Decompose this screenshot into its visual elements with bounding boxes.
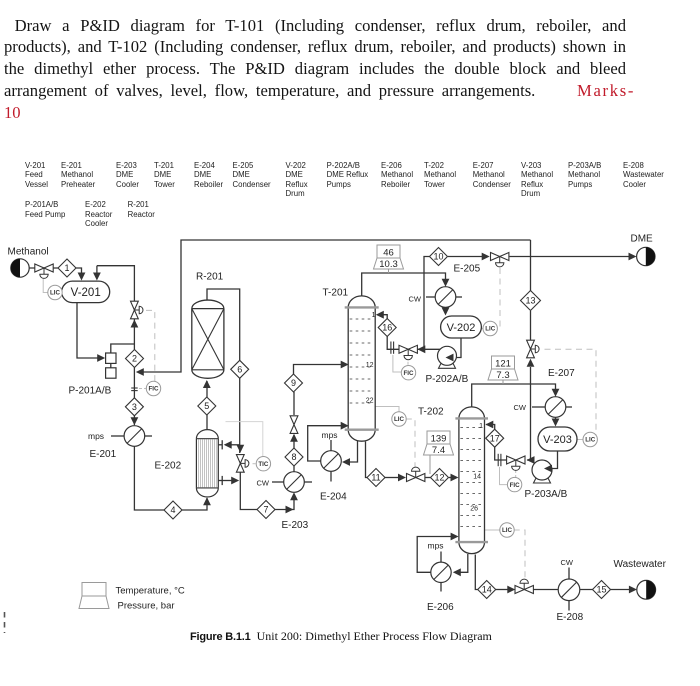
wire methanol feed into V-201 (29, 267, 58, 269)
svg-text:13: 13 (525, 296, 535, 306)
wire P-203A/B reflux line to stream 17 (527, 459, 531, 461)
stream flag 12 (431, 469, 449, 487)
svg-text:CW: CW (409, 295, 422, 304)
arrow into E-202 bottom (203, 497, 211, 505)
arrow into P-203A/B (544, 465, 552, 473)
arrow into wastewater product (629, 586, 637, 594)
wire E-203 to stream 8 valve stream 9 (293, 466, 295, 472)
svg-text:CW: CW (514, 403, 527, 412)
valve T-202 feed control (407, 474, 416, 482)
svg-text:LIC: LIC (585, 437, 595, 444)
wire effluent branch into E-202 shell (225, 444, 240, 446)
wire methanol recycle main header (138, 240, 531, 372)
arrow into DME product (629, 253, 637, 261)
signal V-202 LIC to DME valve (497, 268, 500, 329)
exchanger E-203 DME cooler (284, 472, 305, 493)
svg-text:Wastewater: Wastewater (614, 559, 667, 570)
stream flag 17 (486, 429, 504, 447)
svg-text:T-202: T-202 (418, 407, 444, 418)
wire stream 11 valve stream 12 to T-202 feed (385, 477, 401, 479)
instrument LIC on T-202 (500, 523, 514, 537)
arrow after stream 11 (398, 474, 406, 482)
stream flag 1 (58, 259, 76, 277)
wire stream 9 to T-201 feed (294, 365, 343, 375)
svg-text:E-204: E-204 (320, 492, 347, 503)
svg-text:CW: CW (257, 478, 270, 487)
arrow recycle joins feed (136, 368, 144, 376)
svg-text:E-202: E-202 (155, 461, 182, 472)
flange ticks stream 16 line (390, 342, 392, 354)
valve methanol feed control (35, 264, 44, 272)
svg-text:TIC: TIC (258, 461, 268, 468)
instrument TIC at E-202 (256, 457, 270, 471)
arrow into P-202A/B (446, 354, 454, 362)
arrow T-202 reflux in (485, 421, 493, 429)
wire E-204 boilup return to T-201 (308, 426, 343, 461)
stream flag 4 (164, 501, 182, 519)
svg-text:Pressure, bar: Pressure, bar (118, 601, 175, 612)
wire E-204 mps stub (330, 440, 332, 451)
arrow into V-203 (552, 419, 560, 427)
arrow into DME valve (482, 253, 490, 261)
instrument LIC on T-201 (392, 412, 406, 426)
arrow into E-203 (290, 492, 298, 500)
instrument FIC on T-202 reflux (507, 477, 521, 491)
svg-text:T-201: T-201 (323, 288, 349, 299)
exchanger E-207 methanol condenser (545, 397, 566, 418)
arrow into R-201 bottom (203, 380, 211, 388)
svg-text:FIC: FIC (510, 482, 520, 489)
arrow into E-204 (342, 458, 350, 466)
exchanger E-204 DME reboiler (321, 451, 342, 472)
wire methanol recycle riser from pump (530, 367, 532, 460)
stream flag 5 (198, 397, 216, 415)
valve T-201 reflux control (399, 345, 408, 353)
svg-text:17: 17 (490, 433, 500, 443)
arrow into E-202 shell nozzle (224, 441, 232, 449)
wire bottoms valve to E-208 to wastewater (534, 589, 632, 591)
svg-text:FIC: FIC (149, 386, 159, 393)
svg-text:2: 2 (132, 354, 137, 364)
signal T-201 LIC connections (375, 407, 399, 413)
valve recycle to V-201 (131, 301, 139, 310)
signal FIC sensing line stream 17 (500, 467, 508, 485)
instrument FIC on T-201 reflux (401, 366, 415, 380)
wire stream 14 to bottoms valve (496, 589, 508, 591)
valve T-202 bottoms control (515, 586, 524, 594)
svg-text:15: 15 (596, 585, 606, 595)
flange ticks stream 17 line (497, 454, 499, 466)
stream flag 6 (231, 360, 249, 378)
pump P-203A/B methanol pumps (534, 476, 551, 483)
svg-text:P-203A/B: P-203A/B (525, 489, 568, 500)
wire V-203 to P-203A/B suction (552, 451, 558, 469)
arrow into E-205 (442, 279, 450, 287)
svg-text:7.4: 7.4 (432, 445, 445, 456)
flag 46/10.3 T-201 overhead (388, 269, 390, 273)
stream flag 7 (257, 501, 275, 519)
wire E-202 top nozzle (218, 444, 222, 446)
arrow T-201 reflux in (376, 311, 384, 319)
wire E-201 to E-202 via stream 4 (134, 446, 164, 510)
svg-text:R-201: R-201 (196, 272, 224, 283)
legend flag symbol (82, 583, 106, 597)
stream flag 11 (367, 469, 385, 487)
instrument LIC on V-203 (583, 432, 597, 446)
vessel V-203 methanol reflux drum (538, 427, 577, 451)
svg-text:139: 139 (431, 434, 447, 445)
wire E-202 shell outlet to main line (222, 480, 233, 482)
arrow after stream 7 (286, 506, 294, 514)
svg-text:10: 10 (433, 252, 443, 262)
wire T-201 bottoms to stream 11 (366, 442, 368, 478)
svg-text:P-201A/B: P-201A/B (69, 386, 112, 397)
wire stream 10 to DME valve (448, 256, 484, 258)
instrument LIC on V-202 (483, 321, 497, 335)
svg-text:1: 1 (479, 423, 483, 430)
arrow T-201 feed (341, 361, 349, 369)
arrow into V-202 (442, 308, 450, 316)
svg-text:16: 16 (382, 323, 392, 333)
wire DME valve to product (510, 256, 632, 258)
signal FIC to T-201 reflux valve (407, 362, 409, 366)
wire reflux through valve to stream 16 riser (387, 336, 399, 349)
stream sink wastewater (637, 580, 656, 599)
svg-text:LIC: LIC (50, 290, 60, 297)
svg-text:E-203: E-203 (282, 520, 309, 531)
svg-text:7.3: 7.3 (496, 370, 509, 381)
svg-text:mps: mps (88, 431, 104, 441)
wire V-201 bottom to P-201A/B (77, 302, 103, 358)
column T-201 DME tower (348, 307, 375, 429)
svg-text:7: 7 (263, 505, 268, 515)
wire DME product riser (424, 257, 430, 350)
wire stream 17 to T-202 reflux nozzle (486, 425, 495, 430)
wire T-202 bottoms to stream 14 (475, 555, 478, 590)
arrow into bottoms valve (507, 586, 515, 594)
wire E-207 side stubs (532, 406, 545, 408)
valve TIC bypass at E-202 (236, 455, 244, 464)
arrow into E-206 (453, 568, 461, 576)
wire R-201 top to effluent header (207, 289, 240, 361)
wire T-202 bottoms to E-206 (458, 554, 468, 572)
wire T-201 overhead to E-205 (362, 273, 446, 297)
svg-text:E-201: E-201 (90, 449, 117, 460)
valve methanol recycle control (527, 340, 535, 349)
arrow T-202 boilup in (451, 533, 459, 541)
stream flag 2 (126, 350, 144, 368)
signal FIC to T-202 reflux valve (515, 470, 517, 478)
svg-text:6: 6 (237, 365, 242, 375)
signal V-201 LIC to feed valve (43, 279, 48, 293)
svg-text:E-207: E-207 (548, 368, 575, 379)
signal TIC sensing line (226, 422, 263, 456)
arrow into T-202 reflux valve (527, 456, 535, 464)
valve T-202 reflux control (507, 456, 516, 464)
arrow up into recycle valve (131, 320, 139, 328)
svg-text:FIC: FIC (404, 370, 414, 377)
svg-text:V-203: V-203 (543, 434, 572, 446)
svg-text:LIC: LIC (394, 416, 404, 423)
exchanger E-201 methanol preheater (124, 426, 145, 447)
stream flag 15 (593, 581, 611, 599)
svg-text:121: 121 (495, 359, 511, 370)
valve hand valve above stream 8 (290, 416, 298, 425)
stream flag 9 (285, 374, 303, 392)
stream flag 14 (478, 581, 496, 599)
wire TIC valve to stream 7 to E-203 (240, 472, 257, 510)
wire P-201A/B discharge (111, 344, 135, 353)
signal FIC to recycle valve (146, 310, 155, 381)
flag 121/7.3 T-202 overhead (502, 380, 504, 384)
flag 139/7.4 T-202 feed (429, 455, 431, 474)
exchanger E-202 reactor cooler (196, 439, 218, 488)
reactor R-201 (192, 309, 224, 370)
svg-text:8: 8 (291, 452, 296, 462)
stream flag 13 (521, 291, 541, 311)
svg-text:12: 12 (366, 362, 374, 369)
column T-202 methanol tower (459, 418, 485, 542)
exchanger E-205 DME condenser (435, 287, 456, 308)
svg-text:14: 14 (482, 585, 492, 595)
svg-text:9: 9 (291, 378, 296, 388)
svg-text:LIC: LIC (502, 527, 512, 534)
signal V-203 LIC to recycle valve (545, 349, 597, 439)
wire T-201 bottoms to E-204 (344, 441, 358, 462)
arrow feed into V-201 (78, 273, 86, 281)
stream flag 16 (378, 319, 396, 337)
vessel V-201 feed vessel (62, 281, 110, 303)
arrow up into recycle control valve (527, 359, 535, 367)
svg-text:3: 3 (132, 402, 137, 412)
exchanger E-208 wastewater cooler (558, 579, 580, 601)
svg-text:5: 5 (204, 401, 209, 411)
instrument FIC on feed line (146, 381, 160, 395)
wire E-205 to V-202 (445, 307, 447, 310)
svg-text:10.3: 10.3 (379, 259, 398, 270)
svg-text:mps: mps (322, 430, 338, 440)
wire stream 2 to E-201 (133, 368, 135, 426)
arrow recycle into V-201 (93, 273, 101, 281)
stream source methanol (11, 259, 29, 277)
pump P-202A/B DME reflux pumps (439, 361, 456, 368)
wire header corner down to stream 13 (530, 240, 532, 291)
signal TIC to bypass valve (253, 463, 258, 465)
signal T-202 LIC connections (485, 529, 500, 531)
svg-text:CW: CW (561, 558, 574, 567)
svg-text:E-208: E-208 (557, 612, 584, 623)
wire recycle into V-201 top (96, 266, 98, 277)
arrow T-202 feed in (451, 474, 459, 482)
wire E-205 side stubs (426, 296, 435, 298)
stream sink DME (637, 247, 655, 265)
wire E-202 bottom nozzle (218, 480, 222, 482)
instrument LIC on V-201 (48, 285, 62, 299)
vessel V-202 DME reflux drum (441, 316, 482, 338)
pump P-201A/B feed pumps (106, 353, 116, 363)
svg-text:E-205: E-205 (454, 264, 481, 275)
stream flag 3 (125, 398, 143, 416)
svg-text:E-206: E-206 (427, 602, 454, 613)
wire E-208 CW stubs (568, 568, 570, 580)
svg-text:V-202: V-202 (447, 322, 476, 334)
wire P-202A/B discharge reflux header (446, 346, 448, 349)
left margin dash mark (4, 612, 6, 633)
svg-text:14: 14 (473, 474, 481, 481)
svg-text:22: 22 (366, 398, 374, 405)
wire E-202 top to R-201 via stream 5 (206, 415, 208, 430)
svg-text:mps: mps (428, 541, 444, 551)
svg-text:46: 46 (383, 248, 394, 259)
svg-text:V-201: V-201 (71, 287, 101, 299)
arrow into T-201 reflux valve (417, 345, 425, 353)
wire E-206 mps stubs (440, 552, 442, 563)
svg-text:P-202A/B: P-202A/B (426, 374, 469, 385)
arrow above stream 8 (290, 434, 298, 442)
svg-text:4: 4 (170, 505, 175, 515)
valve DME product control (491, 253, 500, 261)
wire T-202 overhead to E-207 (472, 384, 556, 407)
svg-text:26: 26 (470, 506, 478, 513)
wire stream 16 to T-201 reflux nozzle (377, 315, 387, 319)
wire E-201 side stubs (111, 435, 124, 437)
svg-text:11: 11 (371, 473, 380, 483)
svg-text:Temperature, °C: Temperature, °C (116, 586, 185, 597)
wire E-203 side stubs (272, 481, 284, 483)
arrow into TIC valve (236, 445, 244, 453)
wire effluent down past stream 6 to TIC valve (239, 378, 241, 453)
signal FIC sensing line stream 16 (393, 355, 401, 372)
wire recycle valve to stream-2 junction (133, 319, 135, 350)
stream flag 10 (430, 248, 448, 266)
wire V-202 to P-202A/B suction (449, 338, 461, 358)
stream flag 8 (285, 448, 303, 466)
wire E-207 to V-203 (555, 417, 557, 422)
svg-text:DME: DME (631, 234, 654, 245)
svg-text:1: 1 (64, 263, 69, 273)
arrow out of E-202 shell (231, 477, 239, 485)
svg-text:LIC: LIC (485, 326, 495, 333)
svg-text:1: 1 (372, 312, 376, 319)
arrow into E-207 (552, 389, 560, 397)
orifice ticks FIC feed line (131, 387, 138, 389)
arrow into E-201 (131, 417, 139, 425)
exchanger E-206 methanol reboiler (431, 562, 451, 582)
arrow into P-201A/B (97, 354, 105, 362)
svg-text:12: 12 (434, 473, 444, 483)
wire E-206 boilup return to T-202 (417, 537, 452, 573)
svg-text:Methanol: Methanol (8, 247, 49, 258)
arrow T-201 boilup in (341, 422, 349, 430)
